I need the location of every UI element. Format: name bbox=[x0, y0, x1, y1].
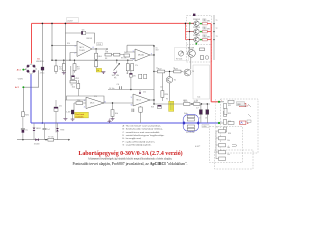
svg-text:F : cystkcszlThvrzlanld) wszlr: F : cystkcszlThvrzlanld) wszlrel n, bbox=[123, 140, 156, 143]
transistor Q2 driver bbox=[188, 47, 196, 57]
node top of bank bbox=[193, 14, 195, 16]
svg-text:mod.: mod. bbox=[197, 97, 201, 99]
node output minus green bbox=[218, 122, 220, 124]
svg-text:R34: R34 bbox=[228, 133, 231, 135]
meter module inner dashed edge bbox=[215, 99, 217, 153]
capacitor C7 electrolytic bbox=[196, 104, 202, 123]
svg-text:2: 2 bbox=[75, 53, 76, 55]
wire red left vertical to bridge bbox=[31, 23, 33, 63]
wire vertical bus x65 bbox=[64, 23, 66, 118]
transistor Q3 bbox=[184, 69, 195, 76]
svg-text:P6KE: P6KE bbox=[60, 130, 64, 132]
resistor R19 horizontal bbox=[184, 101, 190, 106]
diode D13 column bbox=[56, 123, 64, 140]
part at x55 bbox=[54, 100, 58, 133]
highlight yellow box 2 note bbox=[75, 112, 89, 118]
resistor R26 horizontal bbox=[124, 52, 130, 57]
svg-text:R8: R8 bbox=[105, 58, 107, 60]
svg-text:10u: 10u bbox=[25, 129, 28, 131]
resistor R27 vertical bbox=[72, 80, 80, 96]
resistor R5 vertical bbox=[95, 61, 98, 69]
svg-text:1,3V: 1,3V bbox=[66, 112, 71, 114]
svg-text:BD139: BD139 bbox=[188, 47, 195, 49]
capacitor C4 bbox=[117, 84, 122, 89]
ground bbox=[62, 73, 66, 75]
resistor R25 vertical left bbox=[21, 112, 29, 126]
resistor R24 vertical bbox=[161, 73, 169, 101]
ZD1 top bbox=[72, 71, 81, 83]
ground bbox=[101, 72, 105, 74]
svg-text:E : ho-szrglyk mnd,: E : ho-szrglyk mnd, bbox=[123, 137, 142, 140]
panel module dashed box bbox=[210, 127, 243, 163]
wire blue negative rail bbox=[31, 122, 219, 124]
svg-text:4 GP*: 4 GP* bbox=[195, 146, 201, 148]
wire row y89.5 bbox=[108, 89, 154, 91]
svg-text:6: 6 bbox=[131, 104, 132, 106]
diode D5 bbox=[81, 30, 85, 35]
resistor R20 horizontal bbox=[194, 101, 200, 106]
parts cluster R12 bbox=[139, 74, 147, 79]
wire MC2 output to bus bbox=[150, 54, 154, 56]
svg-text:1k: 1k bbox=[173, 68, 175, 70]
svg-text:C : szamált irsz-e mait szszcs: C : szamált irsz-e mait szszcszalmlták bbox=[123, 131, 161, 134]
wire driver base row y71.5 bbox=[154, 71, 184, 73]
capacitor C1 bbox=[40, 67, 45, 75]
svg-text:27k: 27k bbox=[135, 65, 138, 67]
wire vertical bus x42 bbox=[41, 23, 43, 123]
svg-text:1N5408: 1N5408 bbox=[34, 143, 40, 145]
fuse F1 bbox=[48, 135, 54, 141]
meter display red element V bbox=[240, 103, 250, 107]
meter 7seg bbox=[237, 102, 245, 106]
wire vertical bus x52 bbox=[51, 23, 53, 60]
svg-text:A kimeneti feszültségek ág bán: A kimeneti feszültségek ág bánásik közöt… bbox=[88, 158, 173, 161]
svg-text:T1: T1 bbox=[216, 20, 218, 22]
driver module box bbox=[193, 65, 210, 99]
node green dot at rail end bbox=[189, 22, 191, 24]
panel pot box P2 bbox=[175, 48, 189, 61]
wire red right rail bbox=[210, 24, 212, 102]
bridge rectifier B1 bbox=[25, 59, 44, 75]
terminal AC1 bbox=[17, 69, 27, 72]
wire red to output plus bbox=[211, 101, 218, 103]
svg-text:Rsh: Rsh bbox=[184, 113, 188, 115]
wires into meter bbox=[220, 102, 224, 123]
svg-text:0R1/5W: 0R1/5W bbox=[203, 21, 210, 23]
svg-text:10k: 10k bbox=[227, 147, 230, 149]
wire MC3 inputs bbox=[65, 100, 86, 110]
svg-text:C4 10n: C4 10n bbox=[109, 88, 115, 90]
svg-text:10: 10 bbox=[126, 73, 128, 75]
capacitor C12 column bbox=[21, 126, 28, 140]
meter misc parts bbox=[247, 104, 251, 122]
capacitor C8 electrolytic bbox=[206, 103, 209, 123]
node output plus green bbox=[218, 101, 220, 103]
svg-text:D : szintáé fakerlrhet-gysza ': D : szintáé fakerlrhet-gysza 'hegylkeszl… bbox=[123, 134, 165, 137]
resistor R17 vertical bbox=[139, 106, 142, 123]
svg-text:R18: R18 bbox=[151, 107, 154, 109]
diode D7 bbox=[158, 105, 162, 109]
op-amp MC3 bbox=[84, 97, 106, 108]
resistor R23 horizontal bbox=[174, 68, 181, 73]
resistor R16 vertical 10k bbox=[111, 102, 118, 118]
wire red emitter T3 bbox=[207, 39, 211, 41]
svg-text:R33: R33 bbox=[228, 121, 231, 123]
svg-text:J2: J2 bbox=[216, 127, 218, 129]
panel brace and pins bbox=[228, 144, 237, 148]
svg-text:T3: T3 bbox=[216, 36, 218, 38]
ground at x65 bottom bbox=[63, 119, 67, 121]
resistor R22 horizontal bbox=[157, 68, 164, 73]
wire MC3 output bbox=[104, 102, 133, 104]
resistor meter mid bbox=[224, 108, 227, 114]
svg-text:P3: P3 bbox=[166, 99, 168, 101]
svg-text:5k: 5k bbox=[97, 70, 99, 72]
green dot bank bottom bbox=[195, 43, 197, 45]
svg-text:0R1/5W: 0R1/5W bbox=[203, 37, 210, 39]
svg-text:5: 5 bbox=[131, 97, 132, 99]
svg-text:2k2: 2k2 bbox=[160, 87, 163, 89]
resistor R8 horizontal bbox=[105, 52, 111, 56]
arrow test point Ax bbox=[106, 49, 108, 51]
svg-text:10k: 10k bbox=[227, 140, 230, 142]
collector bus in bank bbox=[213, 15, 215, 60]
panel resistor column bbox=[216, 130, 226, 161]
svg-text:D11: D11 bbox=[59, 106, 62, 108]
wire blue negative vertical bbox=[30, 74, 32, 123]
resistor R6 vertical 470 bbox=[126, 60, 134, 74]
power transistor T2 bbox=[193, 27, 201, 35]
op-amp MC2 feedback loop bbox=[127, 45, 154, 52]
svg-text:4700u: 4700u bbox=[40, 73, 45, 75]
ground above blue rail bbox=[108, 119, 112, 123]
svg-text:24,3V: 24,3V bbox=[67, 20, 73, 22]
op-amp MC2 bbox=[133, 49, 152, 61]
svg-text:T2: T2 bbox=[216, 28, 218, 30]
svg-text:~230V: ~230V bbox=[17, 79, 24, 81]
resistor Re4 bbox=[200, 48, 205, 51]
svg-text:G : uszjzlThvrzlakldj wajrheln: G : uszjzlThvrzlakldj wajrheln. bbox=[123, 144, 152, 147]
svg-text:XXX: XXX bbox=[97, 44, 102, 46]
capacitor C13 column bbox=[43, 123, 51, 140]
wire row y60 bbox=[52, 59, 133, 61]
value labels scatter bbox=[59, 20, 247, 156]
diode D6 bbox=[130, 73, 137, 77]
svg-text:érzékelés: érzékelés bbox=[75, 115, 83, 118]
svg-text:A : 'Ha nem hűti jól' 'szam' p: A : 'Ha nem hűti jól' 'szam' pszkamrban, bbox=[123, 124, 162, 127]
resistor meter row2 bbox=[228, 121, 234, 124]
wire MC1 output bbox=[92, 48, 107, 50]
wire base bus in bank bbox=[190, 24, 194, 50]
svg-text:1N4148: 1N4148 bbox=[86, 38, 92, 40]
transistor bank dashed box bbox=[187, 16, 212, 63]
diode D9 in rail bbox=[34, 138, 40, 145]
svg-text:10k: 10k bbox=[72, 86, 75, 88]
svg-text:C8: C8 bbox=[205, 118, 207, 120]
power transistor T3 bbox=[193, 35, 201, 43]
svg-text:1k: 1k bbox=[196, 100, 198, 102]
wire MC2 inputs bbox=[130, 58, 135, 60]
resistor R1 vertical bbox=[55, 60, 58, 75]
wire MC1 inputs bbox=[52, 46, 77, 61]
svg-text:10k: 10k bbox=[59, 69, 62, 71]
svg-text:1k: 1k bbox=[156, 68, 158, 70]
resistor Re2 bbox=[203, 27, 210, 33]
label shunt value box bbox=[202, 125, 209, 128]
potentiometer P1 bbox=[112, 60, 120, 79]
svg-text:R10: R10 bbox=[67, 43, 70, 45]
resistor Re1 bbox=[203, 19, 210, 25]
wire red top positive rail bbox=[32, 22, 194, 24]
wire red emitter T1 bbox=[207, 23, 211, 25]
terminal AC2 bbox=[15, 70, 39, 112]
svg-text:0R1/5W: 0R1/5W bbox=[203, 29, 210, 31]
op-amp MC1 bbox=[75, 41, 94, 57]
svg-text:4k7: 4k7 bbox=[77, 69, 80, 71]
resistor Re3 bbox=[203, 35, 210, 41]
svg-text:D10: D10 bbox=[143, 92, 146, 94]
resistor R7 vertical bbox=[131, 64, 134, 71]
svg-text:5: 5 bbox=[133, 51, 134, 53]
resistor meter row1 bbox=[228, 100, 234, 103]
wire x70.8 bbox=[70, 66, 72, 80]
svg-text:C7: C7 bbox=[199, 118, 201, 120]
op-amp MC4 bbox=[131, 94, 150, 106]
svg-text:10k: 10k bbox=[115, 113, 118, 115]
svg-text:R9 47k: R9 47k bbox=[121, 58, 127, 60]
wire resistor chain x130.9 bbox=[130, 71, 132, 90]
svg-text:0R33: 0R33 bbox=[183, 100, 187, 102]
transistor Q4 bbox=[166, 77, 176, 83]
capacitor C6 bbox=[201, 56, 209, 60]
meter display red element A bbox=[240, 121, 250, 125]
highlight trimmer note yellow box 1 bbox=[96, 68, 101, 72]
LED D8 bbox=[66, 110, 74, 114]
node label Ub voltage box bbox=[67, 18, 79, 23]
wire MC4 top supply bbox=[139, 90, 141, 94]
svg-text:2n2: 2n2 bbox=[47, 129, 50, 131]
svg-text:R31: R31 bbox=[228, 105, 231, 107]
meter module dashed box bbox=[221, 99, 259, 153]
svg-text:MC2A: MC2A bbox=[138, 54, 144, 57]
resistor R11 horizontal bbox=[70, 80, 76, 86]
shunt resistor bank Rsense bbox=[182, 113, 200, 131]
wire Q4 collector bbox=[169, 72, 171, 101]
wire Q2 emitter to Q3 bbox=[190, 57, 192, 69]
notes text block bbox=[123, 124, 165, 146]
wire vertical bus x154 bbox=[153, 45, 155, 104]
resistor R9 horizontal bbox=[114, 53, 120, 56]
svg-text:KBU810: KBU810 bbox=[36, 61, 44, 63]
diode D12 column bbox=[33, 123, 41, 140]
power transistor T1 bbox=[193, 19, 201, 27]
label TRE box bbox=[97, 43, 103, 46]
capacitor C5 bbox=[132, 109, 134, 112]
svg-text:P2 10k: P2 10k bbox=[176, 59, 182, 61]
svg-text:2: 2 bbox=[84, 107, 85, 109]
wire bottom-left rail bbox=[17, 139, 70, 141]
resistor R2 vertical bbox=[59, 60, 65, 72]
resistor R3 vertical bbox=[73, 60, 80, 72]
ground bbox=[111, 119, 115, 121]
svg-text:2N3055: 2N3055 bbox=[193, 35, 201, 37]
svg-text:Labortápegység 0-30V/0-3A (2.7: Labortápegység 0-30V/0-3A (2.7.4 verzió) bbox=[78, 150, 182, 157]
op-amp MC3 feedback loop bbox=[67, 96, 105, 103]
wire sense row y104 bbox=[154, 103, 210, 105]
junction dots on top rail bbox=[42, 23, 44, 25]
svg-text:1k: 1k bbox=[97, 56, 99, 58]
svg-text:1E2: 1E2 bbox=[156, 50, 159, 52]
svg-text:R32: R32 bbox=[228, 113, 231, 115]
meter resistor column bbox=[224, 103, 227, 132]
op-amp MC1 feedback loop bbox=[65, 33, 94, 44]
svg-text:10k: 10k bbox=[227, 154, 230, 156]
svg-text:6: 6 bbox=[133, 59, 134, 61]
svg-text:R14: R14 bbox=[94, 96, 97, 98]
resistor R4 vertical bbox=[95, 53, 103, 59]
svg-text:2N3055: 2N3055 bbox=[193, 19, 201, 21]
svg-text:B : Szndiszkuszlak 'nahamalair: B : Szndiszkuszlak 'nahamalairj' tzhldzs… bbox=[123, 128, 164, 131]
ground bbox=[71, 119, 75, 121]
svg-text:4x 1R5/5W: 4x 1R5/5W bbox=[186, 132, 195, 134]
svg-text:TL081: TL081 bbox=[79, 50, 86, 52]
resistor R15 horizontal bbox=[76, 100, 83, 105]
meter module lower dashed box bbox=[215, 150, 254, 169]
wire MC4 output bbox=[150, 99, 154, 101]
wire red emitter T2 bbox=[207, 31, 211, 33]
svg-text:2N3055: 2N3055 bbox=[193, 27, 201, 29]
highlight yellow box 3 trimmer bbox=[169, 101, 174, 111]
